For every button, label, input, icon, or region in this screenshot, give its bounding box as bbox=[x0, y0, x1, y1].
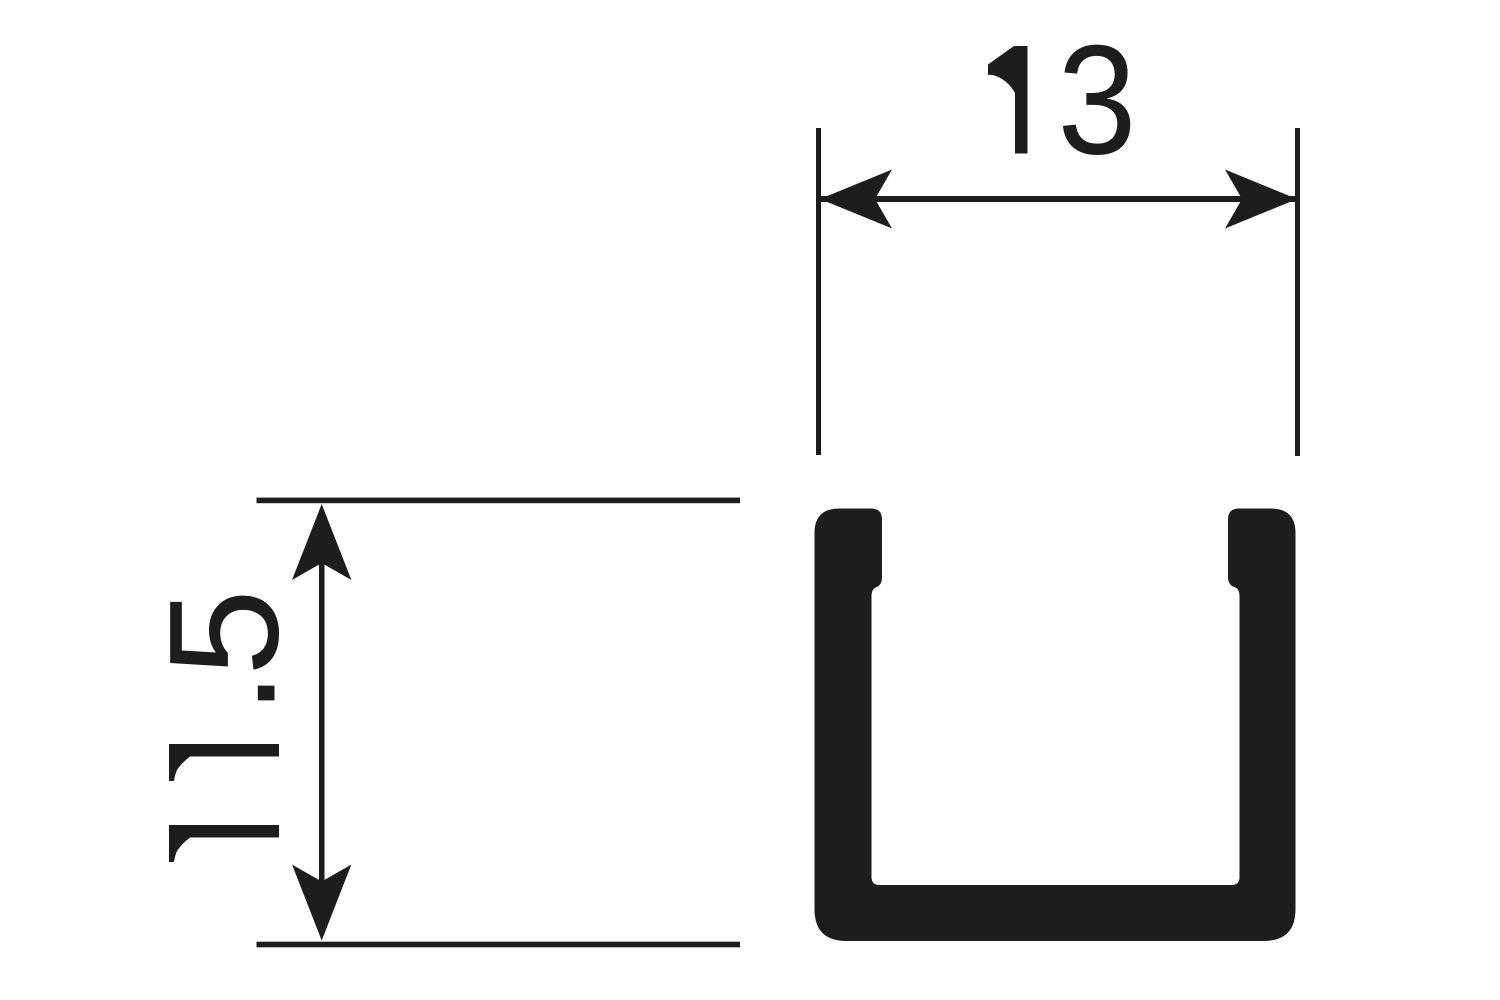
svg-text:.: . bbox=[135, 671, 309, 714]
svg-text:5: 5 bbox=[138, 589, 312, 676]
svg-text:3: 3 bbox=[1058, 14, 1137, 188]
